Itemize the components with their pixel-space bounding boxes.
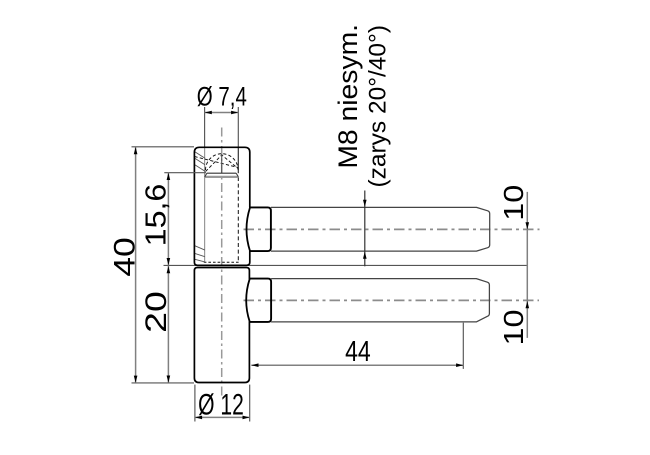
svg-text:10: 10 [499,310,529,346]
dim 10 upper arrow [526,222,530,229]
dim Ø7,4 extension lines [204,107,206,147]
upper collar intersection arc [247,208,251,252]
dim 44 line [251,364,463,366]
dim 15,6 arrows [167,173,171,180]
upper collar [250,207,271,251]
svg-text:40: 40 [109,237,141,277]
dim 15,6 line [167,173,169,265]
dim 15,6 extension line top [164,172,206,174]
wire junction split line [164,264,528,266]
bore right wall solid part [237,147,239,173]
dim 40 arrows [134,147,138,154]
lower body outline [194,268,249,383]
washer top line [207,172,236,174]
svg-text:10: 10 [499,185,529,221]
washer bottom thick line [205,176,239,178]
thread tent dashed [206,155,239,172]
bore right wall hidden dashed [237,177,239,262]
hatch bottom-left [194,246,205,262]
dim 44 arrows [251,363,258,367]
bore bottom hidden dashed [204,261,241,263]
dim Ø12 line [195,416,250,418]
M8 leader arrow down [363,200,367,207]
M8 leader line [364,191,366,267]
dim 40 extension lines [132,146,195,148]
lower rod [271,279,489,322]
upper body outline [194,147,249,265]
dim 44 right extension line [462,323,464,369]
svg-text:15,6: 15,6 [140,184,172,247]
upper rod centerline [244,228,540,230]
center solid segment in bore [221,154,223,173]
washer side diag right [236,173,238,177]
dim Ø7,4 arrows [205,111,212,115]
svg-text:20: 20 [141,291,173,333]
dim 40 line [135,147,137,383]
thread cone dome dashed [206,154,239,170]
thread diag dashed 1 [195,157,239,168]
svg-text:44: 44 [345,334,371,367]
upper rod [271,207,490,251]
body vertical centerline [221,128,223,396]
M8 leader arrow up [363,252,367,259]
bore left wall [204,147,206,262]
dim 20 arrows [167,266,171,273]
dim Ø7,4 line [205,112,239,114]
hatch top-left [194,152,205,172]
dim 10 shared vertical line [526,192,528,338]
svg-text:Ø 12: Ø 12 [198,389,244,421]
dim Ø12 arrows [195,416,202,420]
lower rod centerline [244,299,540,301]
svg-text:Ø 7,4: Ø 7,4 [197,82,247,112]
lower collar intersection arc [246,279,250,322]
svg-text:(zarys 20°/40°): (zarys 20°/40°) [365,25,392,188]
dim Ø12 extension lines [194,385,196,422]
lower collar [250,279,271,322]
svg-text:M8 niesym.: M8 niesym. [333,24,363,169]
washer side diag left [205,173,207,177]
dim 10 lower arrow [526,301,530,308]
dim 20 line [167,266,169,383]
